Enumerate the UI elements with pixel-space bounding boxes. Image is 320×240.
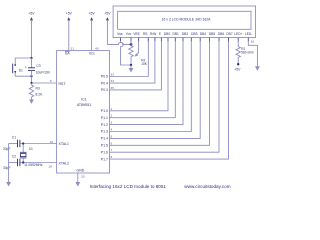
svg-text:10uF/16V: 10uF/16V (36, 70, 51, 74)
svg-text:P1.0: P1.0 (101, 109, 108, 113)
wire VEE pin to pot wiper arrow (135, 41, 139, 57)
svg-text:LED+: LED+ (234, 32, 242, 36)
wire DB6 to P1.6 (110, 41, 220, 152)
wire DB5 to P1.5 (110, 41, 210, 145)
svg-text:Interfacing 16x2 LCD module to: Interfacing 16x2 LCD module to 8051 (90, 184, 167, 189)
svg-text:XTAL1: XTAL1 (59, 142, 69, 146)
svg-text:560 ohm: 560 ohm (241, 50, 254, 54)
svg-text:X1: X1 (29, 147, 33, 151)
svg-text:18: 18 (48, 165, 52, 169)
svg-text:8.2K: 8.2K (36, 92, 44, 96)
node R1 bottom +5V terminal (237, 63, 239, 65)
crystal X1 (20, 144, 43, 168)
node crystal bottom junction (22, 161, 24, 163)
LCD module box (113, 6, 255, 38)
LCD pin labels (117, 32, 252, 36)
svg-text:DB2: DB2 (182, 32, 189, 36)
svg-text:IC1: IC1 (81, 98, 87, 102)
svg-text:P1.2: P1.2 (101, 123, 108, 127)
svg-text:33: 33 (111, 73, 115, 77)
svg-text:RST: RST (59, 82, 67, 86)
svg-text:DB7: DB7 (226, 32, 233, 36)
wire DB7 to P1.7 (110, 41, 229, 159)
svg-text:+5V: +5V (28, 11, 35, 15)
node RST junction (30, 82, 32, 84)
node pot bottom ground junction (130, 64, 132, 66)
resistor R1 backlight (236, 41, 254, 64)
capacitor C1 (3, 136, 57, 151)
svg-text:20: 20 (81, 174, 85, 178)
svg-text:EA: EA (65, 51, 70, 55)
power +5V supply LCD rail (104, 11, 111, 44)
svg-text:E: E (159, 32, 162, 36)
svg-text:P1.3: P1.3 (101, 130, 108, 134)
wire R/W to P0.4 (110, 41, 155, 83)
svg-text:2: 2 (111, 114, 113, 118)
svg-text:S1: S1 (19, 68, 23, 72)
svg-text:+: + (25, 65, 27, 69)
node S1 bottom junction (30, 75, 32, 77)
svg-text:9: 9 (50, 79, 52, 83)
svg-text:C3: C3 (36, 64, 40, 68)
svg-text:Vcc: Vcc (89, 51, 95, 55)
pin numbers P0 group (111, 73, 115, 90)
svg-text:16: 16 (251, 39, 255, 43)
svg-text:Vcc: Vcc (126, 32, 132, 36)
svg-text:7: 7 (111, 148, 113, 152)
svg-text:DB1: DB1 (173, 32, 180, 36)
svg-text:R3: R3 (36, 86, 40, 90)
svg-text:DB3: DB3 (191, 32, 198, 36)
svg-text:DB0: DB0 (164, 32, 171, 36)
switch S1 push button (13, 58, 32, 76)
svg-text:+5V: +5V (234, 67, 241, 71)
wire RST node to IC pin 9 (32, 79, 57, 83)
svg-text:16 x 2 LCD MODULE JHD 162A: 16 x 2 LCD MODULE JHD 162A (162, 18, 212, 22)
svg-text:www.circuitstoday.com: www.circuitstoday.com (184, 184, 230, 189)
svg-text:AT89S51: AT89S51 (77, 103, 91, 107)
svg-text:+5V: +5V (104, 11, 111, 15)
svg-text:P0.5: P0.5 (101, 75, 108, 79)
IC U1 AT89S51 box (57, 51, 110, 173)
svg-text:P1.7: P1.7 (101, 157, 108, 161)
node S1 top junction (30, 57, 32, 59)
wire Vcc pin to rail junction (130, 41, 132, 44)
wire GND pin 20 (78, 173, 85, 182)
wire RS to P0.5 (110, 41, 149, 77)
svg-text:33pF: 33pF (3, 147, 11, 151)
svg-text:P0.3: P0.3 (101, 88, 108, 92)
capacitor C3 electrolytic (25, 58, 51, 83)
power +5V supply reset branch (28, 11, 35, 58)
svg-text:DB4: DB4 (200, 32, 207, 36)
svg-text:C1: C1 (12, 136, 16, 140)
LCD pin stubs (121, 38, 249, 42)
svg-text:1: 1 (111, 107, 113, 111)
power +5V supply Vcc pin (89, 11, 96, 50)
svg-text:P1.4: P1.4 (101, 137, 108, 141)
svg-text:P1.5: P1.5 (101, 144, 108, 148)
wire crystal ground rail (8, 144, 10, 183)
svg-text:34: 34 (111, 79, 115, 83)
wire DB4 to P1.4 (110, 41, 201, 138)
svg-text:GND: GND (77, 169, 85, 173)
svg-text:19: 19 (50, 140, 54, 144)
svg-text:LED-: LED- (245, 32, 252, 36)
ground crystal rail (6, 182, 11, 187)
ground pot bottom (129, 65, 134, 73)
svg-text:+5V: +5V (89, 11, 96, 15)
wire DB1 to P1.1 (110, 41, 176, 118)
ground LED- (255, 66, 260, 71)
svg-text:3: 3 (111, 121, 113, 125)
svg-text:5: 5 (111, 134, 113, 138)
wire DB2 to P1.2 (110, 41, 184, 125)
svg-text:35: 35 (111, 86, 115, 90)
svg-text:11.0592MHz: 11.0592MHz (24, 163, 43, 167)
svg-text:+5V: +5V (66, 11, 73, 15)
svg-text:R/W: R/W (150, 32, 157, 36)
wire DB0 to P1.0 (110, 41, 169, 111)
svg-text:RS: RS (143, 32, 148, 36)
pin numbers P1 group (111, 107, 113, 159)
svg-text:33pF: 33pF (3, 166, 11, 170)
svg-text:C2: C2 (12, 155, 16, 159)
wire +5V rail with hop over Vss (107, 42, 131, 44)
svg-text:XTAL2: XTAL2 (59, 161, 69, 165)
potentiometer R2 (129, 44, 148, 66)
resistor R3 (29, 83, 43, 100)
node pot top junction (130, 43, 133, 46)
svg-text:DB5: DB5 (209, 32, 216, 36)
svg-text:P0.4: P0.4 (101, 81, 108, 85)
wire E to P0.3 (110, 41, 162, 90)
capacitor C2 (3, 155, 57, 170)
wire DB3 to P1.3 (110, 41, 192, 132)
ground below R3 (29, 100, 34, 104)
wire LED- to ground (248, 39, 257, 66)
svg-text:DB6: DB6 (218, 32, 225, 36)
power +5V supply EA pin (66, 11, 73, 50)
node crystal top junction (22, 142, 24, 144)
svg-text:P1.1: P1.1 (101, 116, 108, 120)
svg-text:8: 8 (111, 155, 113, 159)
svg-text:P1.6: P1.6 (101, 150, 108, 154)
svg-text:VEE: VEE (133, 32, 140, 36)
svg-text:40: 40 (95, 46, 99, 50)
wire Vss pin to ground junction with hop over rail (121, 41, 132, 65)
svg-text:Vss: Vss (117, 32, 123, 36)
ground IC GND (75, 182, 80, 187)
svg-text:10K: 10K (141, 62, 148, 66)
svg-text:31: 31 (71, 46, 75, 50)
svg-text:4: 4 (111, 128, 113, 132)
svg-text:6: 6 (111, 141, 113, 145)
